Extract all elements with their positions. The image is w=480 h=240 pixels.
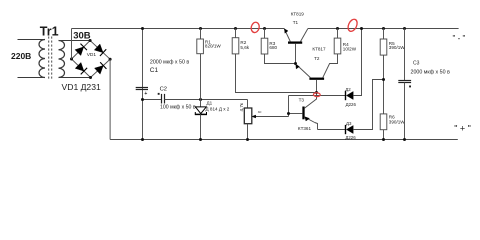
label зо xyxy=(258,110,262,114)
secondary top lead xyxy=(59,40,91,42)
label C2 value xyxy=(160,104,196,110)
node R5 top xyxy=(382,27,385,30)
secondary bottom lead xyxy=(59,77,91,79)
node R4 top xyxy=(336,27,339,30)
label 220B xyxy=(11,51,31,61)
svg-text:Т3: Т3 xyxy=(299,97,305,102)
label R4 value xyxy=(343,46,357,51)
label R2 xyxy=(240,40,246,45)
node R5R6 mid junction xyxy=(382,78,385,81)
svg-text:VD1 Д231: VD1 Д231 xyxy=(62,82,101,92)
svg-text:390/1W: 390/1W xyxy=(389,120,405,125)
wire R1 bottom xyxy=(200,54,202,107)
svg-text:Д 814 Д х 2: Д 814 Д х 2 xyxy=(206,107,230,112)
svg-text:КТ817: КТ817 xyxy=(312,47,326,52)
node C1 bottom xyxy=(141,138,144,141)
capacitor C3 xyxy=(398,81,411,83)
T2 collector wire xyxy=(323,54,338,78)
wire R5 to R6 xyxy=(383,55,385,114)
label R6 value xyxy=(389,120,405,125)
label КТ819 xyxy=(291,12,305,17)
node T3 base xyxy=(287,112,290,115)
svg-text:390/1W: 390/1W xyxy=(389,45,405,50)
node R1 top xyxy=(199,27,202,30)
svg-text:820/1W: 820/1W xyxy=(205,43,221,48)
node C3 bottom xyxy=(403,138,406,141)
wire R6 bottom xyxy=(383,130,385,140)
node R6 bottom xyxy=(382,138,385,141)
wire R5 top xyxy=(383,29,385,40)
terminal plus xyxy=(454,124,471,134)
node R2 top xyxy=(234,27,237,30)
label 30B xyxy=(73,31,91,42)
label R4 xyxy=(343,42,349,47)
svg-text:10/2W: 10/2W xyxy=(343,46,357,51)
node T2 base junction xyxy=(315,91,318,94)
label R2 value xyxy=(240,45,249,50)
svg-text:" - ": " - " xyxy=(453,34,466,43)
node Д2 rail xyxy=(360,27,363,30)
zener diode Д1 xyxy=(195,107,207,115)
resistor R1 xyxy=(197,39,204,54)
transformer core xyxy=(49,37,52,81)
wire Д3 row right xyxy=(353,80,383,130)
node C3 top xyxy=(403,27,406,30)
red ellipse annotation 3 xyxy=(313,93,320,97)
node R3 top xyxy=(263,27,266,30)
primary bottom lead xyxy=(18,77,46,79)
label КТ361 xyxy=(298,126,312,131)
label Д1 value xyxy=(206,107,230,112)
red ellipse annotation 2 xyxy=(346,18,359,33)
wire C3 bottom xyxy=(404,83,406,140)
wire bridge right corner to bottom rail xyxy=(109,59,111,139)
label R1 xyxy=(205,40,211,45)
bridge rectifier outline xyxy=(72,41,111,78)
C2 plus mark xyxy=(158,93,160,95)
resistor R5 xyxy=(380,39,387,55)
diode Д2 xyxy=(346,91,354,100)
transformer primary winding xyxy=(39,40,45,78)
T1 base wire xyxy=(295,44,297,64)
svg-text:2000 мкф х 50 в: 2000 мкф х 50 в xyxy=(411,69,451,75)
label T1 xyxy=(293,20,299,25)
svg-text:Т2: Т2 xyxy=(314,56,320,61)
node T1 base R3 T2 emitter xyxy=(294,62,297,65)
T2 base wire xyxy=(316,80,318,96)
bridge diode top-left xyxy=(75,44,87,56)
resistor R3 xyxy=(261,38,268,54)
potentiometer body xyxy=(244,108,252,124)
label C1 value xyxy=(150,59,190,65)
svg-text:4,7к: 4,7к xyxy=(239,102,244,111)
label C3 value xyxy=(411,69,451,75)
node pot bottom xyxy=(246,138,249,141)
svg-text:Д226: Д226 xyxy=(346,102,357,107)
resistor R4 xyxy=(334,38,341,54)
C3 plus mark xyxy=(409,86,411,88)
label pot value 4,7к xyxy=(239,102,244,111)
svg-text:С2: С2 xyxy=(160,87,167,93)
svg-text:VD1: VD1 xyxy=(87,52,97,58)
bridge diode bottom-left xyxy=(75,62,87,74)
red ellipse annotation 1 xyxy=(250,21,260,33)
label T3 xyxy=(299,97,305,102)
capacitor C1 xyxy=(136,88,148,90)
terminal minus xyxy=(453,34,466,43)
svg-text:Д3: Д3 xyxy=(346,121,352,126)
svg-text:30В: 30В xyxy=(73,31,91,42)
diode Д3 xyxy=(346,125,354,134)
wire R3 top xyxy=(264,29,266,39)
label R3 xyxy=(269,41,275,46)
svg-text:" + ": " + " xyxy=(454,124,471,134)
label Д2 xyxy=(345,87,351,92)
wire C2 to pot xyxy=(165,100,248,109)
bridge diode top-right xyxy=(94,44,106,56)
bridge corner nodes xyxy=(70,39,112,79)
wire R2 bottom xyxy=(236,54,317,93)
pot wiper arrow xyxy=(252,114,289,119)
svg-text:100 мкф х 50 в: 100 мкф х 50 в xyxy=(160,104,196,110)
wire Д1 bottom xyxy=(200,114,202,139)
svg-text:R6: R6 xyxy=(389,115,395,120)
label Д3 xyxy=(346,121,352,126)
wire R2 top xyxy=(235,29,237,38)
node wireB R1 junction xyxy=(199,98,202,101)
svg-text:Д1: Д1 xyxy=(207,101,213,106)
svg-text:КТ819: КТ819 xyxy=(291,12,305,17)
svg-text:КТ361: КТ361 xyxy=(298,126,312,131)
transformer secondary winding xyxy=(59,41,65,78)
wire R4 top xyxy=(337,29,339,39)
label Д3 value xyxy=(345,135,356,140)
resistor R6 xyxy=(380,114,387,130)
svg-text:зо: зо xyxy=(258,110,262,114)
svg-text:2000 мкф х 50 в: 2000 мкф х 50 в xyxy=(150,59,190,65)
label R5 value xyxy=(389,45,405,50)
svg-text:+: + xyxy=(144,91,147,97)
primary top lead xyxy=(18,39,46,41)
svg-text:680: 680 xyxy=(269,45,277,50)
wire Д3 row left xyxy=(318,129,346,131)
wire Д2 row right xyxy=(353,29,361,96)
T2 emitter wire with arrow xyxy=(296,64,311,78)
label VD1 Д231 xyxy=(62,82,101,92)
pot bottom wire xyxy=(247,124,249,140)
svg-text:Д226: Д226 xyxy=(345,135,356,140)
svg-text:5,6k: 5,6k xyxy=(240,45,249,50)
svg-text:Д2: Д2 xyxy=(345,87,351,92)
svg-text:С3: С3 xyxy=(413,61,420,67)
label R1 value xyxy=(205,43,221,48)
transformer Tr1 label xyxy=(40,25,59,39)
label C2 xyxy=(160,87,167,93)
T1 collector wire xyxy=(301,29,308,42)
top rail right segment xyxy=(308,28,459,30)
T1 emitter wire with arrow xyxy=(284,29,290,42)
label VD1 inside bridge xyxy=(87,52,97,58)
wire C1 column xyxy=(142,29,144,140)
bridge diode bottom-right xyxy=(95,62,107,74)
wire R3 bottom xyxy=(265,54,296,64)
top rail left segment xyxy=(72,28,285,30)
label Д1 xyxy=(207,101,213,106)
svg-text:С1: С1 xyxy=(150,67,159,74)
node Д1 bottom xyxy=(199,138,202,141)
T3 emitter wire with arrow xyxy=(304,117,317,130)
svg-text:Tr1: Tr1 xyxy=(40,25,59,39)
wire Д2 row left xyxy=(289,95,346,97)
capacitor C2 xyxy=(162,94,165,104)
T3 collector wire xyxy=(304,96,316,109)
T3 base wire xyxy=(289,113,303,115)
svg-text:Т1: Т1 xyxy=(293,20,299,25)
resistor R2 xyxy=(232,38,239,54)
transistor T1 base bar xyxy=(288,41,302,43)
label КТ817 xyxy=(312,47,326,52)
label R6 xyxy=(389,115,395,120)
node C1 top xyxy=(141,27,144,30)
transistor T3 base bar xyxy=(302,107,304,120)
label R3 value xyxy=(269,45,277,50)
wire C1 to C2 xyxy=(143,99,162,101)
label T2 xyxy=(314,56,320,61)
label Д2 value xyxy=(346,102,357,107)
wire C3 top xyxy=(404,29,406,81)
svg-text:220В: 220В xyxy=(11,51,31,61)
bottom rail xyxy=(110,139,458,141)
transistor T2 base bar xyxy=(309,78,324,80)
C1 plus sign xyxy=(144,91,147,97)
label C1 xyxy=(150,67,159,74)
wire pot riser xyxy=(288,96,290,114)
node wireB C1 junction xyxy=(141,98,144,101)
label R5 xyxy=(389,41,395,46)
label C3 xyxy=(413,61,420,67)
wire bridge left corner to top rail xyxy=(71,29,73,60)
wire R1 top xyxy=(200,29,202,40)
